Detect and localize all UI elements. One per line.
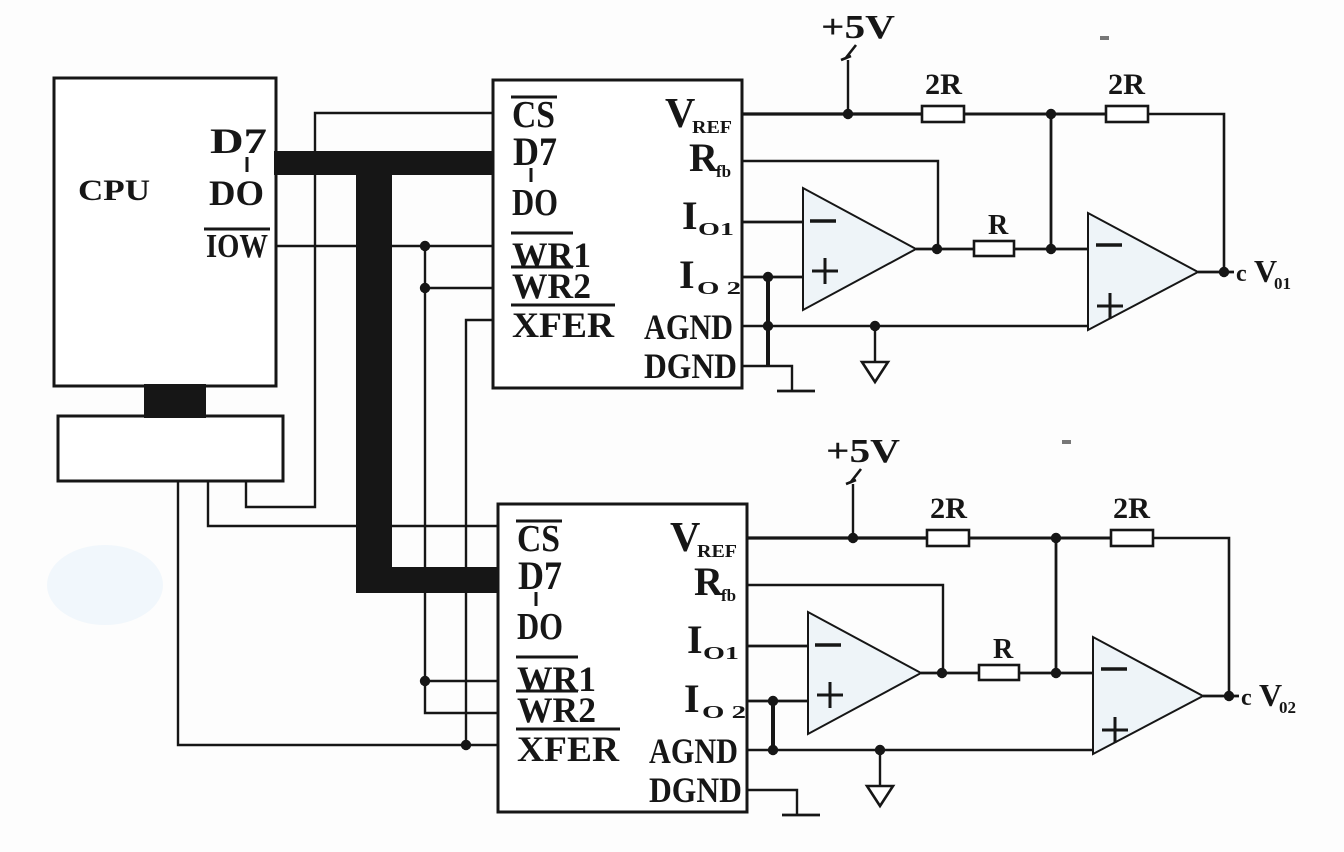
junction +5V on VREF (843, 109, 853, 119)
junction on AGND (763, 321, 773, 331)
U1 D7-D0 dash (530, 168, 533, 182)
wire AGND to op-amp A4 (747, 749, 1093, 752)
wire WR vertical trunk (425, 246, 497, 713)
wire A2 output (1198, 271, 1234, 274)
svg-text:DGND: DGND (644, 346, 737, 386)
svg-text:R: R (993, 634, 1014, 665)
wire A4 output (1203, 695, 1239, 698)
U1 CS overline (511, 96, 557, 99)
wire 2R to node (964, 113, 1106, 116)
junction A1 output (932, 244, 942, 254)
wire VREF to 2R (742, 112, 922, 115)
resistor 2R R2 (1106, 106, 1148, 122)
wire IO1 to A3 inverting input (747, 645, 808, 648)
A1 plus (812, 270, 838, 273)
svg-text:I: I (687, 617, 703, 662)
wire Rfb to op-amp A3 output (747, 585, 943, 673)
digital ground on DGND (742, 366, 792, 391)
DAC0832 U1 block (493, 80, 742, 388)
wire branch DAC1 WR2 (425, 287, 492, 289)
CPU block U0 (54, 78, 276, 386)
svg-text:DO: DO (512, 182, 558, 224)
junction IO2 (763, 272, 773, 282)
svg-text:REF: REF (692, 117, 732, 137)
svg-text:2R: 2R (1108, 68, 1145, 101)
svg-text:O 2: O 2 (697, 278, 741, 298)
U2 CS overline (516, 520, 562, 523)
data bus branch to DAC2 (thick) (390, 567, 499, 593)
analog ground symbol (874, 326, 876, 362)
digital ground on DGND (747, 790, 797, 815)
wire IO2 to A1 non-inverting input (742, 276, 803, 279)
+5V arrow mark (841, 45, 856, 60)
svg-text:AGND: AGND (649, 731, 738, 771)
+5V arrow mark (846, 469, 861, 484)
svg-text:c: c (1241, 685, 1252, 711)
U1 WR1 overline (511, 232, 573, 235)
wire IO1 to A1 inverting input (742, 221, 803, 224)
svg-text:R: R (689, 135, 719, 180)
svg-text:I: I (682, 193, 698, 238)
data bus D7-D0 CPU to DAC1 (thick) (274, 151, 494, 175)
junction R node (1051, 668, 1061, 678)
svg-text:DO: DO (209, 173, 264, 213)
wire XFER net: decoder to DAC2 XFER (178, 481, 497, 745)
wire CS2 net: decoder to DAC2 CS (208, 481, 497, 526)
wire XFER branch to DAC1 XFER (466, 320, 492, 745)
wire 2R feedback (1153, 538, 1229, 696)
A4 minus (1101, 667, 1127, 670)
svg-text:O1: O1 (698, 219, 734, 239)
wire IO2 to AGND (771, 701, 775, 750)
junction IO2 (768, 696, 778, 706)
op-amp A2 (1088, 213, 1198, 330)
junction WR at IOW (420, 241, 430, 251)
wire 2R to node (969, 537, 1111, 540)
resistor R (circuit 2) (979, 665, 1019, 680)
svg-text:CPU: CPU (78, 174, 150, 207)
scan speck 2 (1062, 440, 1071, 444)
svg-text:DGND: DGND (649, 770, 742, 810)
wire VREF node tap (1050, 114, 1053, 249)
latch block (58, 416, 283, 481)
svg-text:REF: REF (697, 541, 737, 561)
wire R to A2 inverting input (1014, 248, 1088, 251)
junction R node (1046, 244, 1056, 254)
junction WR1 DAC2 (420, 676, 430, 686)
junction +5V on VREF (848, 533, 858, 543)
svg-text:01: 01 (1274, 274, 1291, 293)
+5V supply wire (852, 484, 854, 538)
junction WR2 DAC1 (420, 283, 430, 293)
resistor 2R R1 (922, 106, 964, 122)
+5V supply wire (847, 60, 849, 114)
svg-text:2R: 2R (925, 68, 962, 101)
svg-text:O1: O1 (703, 643, 739, 663)
A2 plus (1097, 305, 1123, 308)
junction XFER net (461, 740, 471, 750)
svg-text:AGND: AGND (644, 307, 733, 347)
wire AGND to op-amp A2 (742, 325, 1088, 328)
svg-text:XFER: XFER (517, 729, 620, 769)
svg-text:V: V (670, 515, 700, 561)
svg-text:+5V: +5V (826, 433, 901, 470)
wire VREF node tap (1055, 538, 1058, 673)
junction VREF node (1046, 109, 1056, 119)
svg-text:WR2: WR2 (512, 266, 591, 306)
A3 minus (815, 643, 841, 646)
wire IO2 to AGND (766, 277, 770, 366)
CPU D7-D0 range dash (246, 157, 249, 172)
A3 plus (817, 694, 843, 697)
A4 plus (1102, 729, 1128, 732)
wire A3 output to R (921, 672, 979, 675)
wire 2R feedback (1148, 114, 1224, 272)
IOW overline (204, 228, 270, 231)
svg-text:R: R (988, 210, 1009, 241)
wire IO2 to A3 non-inverting input (747, 700, 808, 703)
U2 WR2 overline (516, 690, 578, 693)
svg-text:2R: 2R (1113, 492, 1150, 525)
wire VREF to 2R (747, 536, 927, 539)
background artifact blob (47, 545, 163, 625)
wire IOW: CPU to DAC1 WR1 (275, 245, 492, 247)
svg-text:c: c (1236, 261, 1247, 287)
A1 minus (810, 219, 836, 222)
svg-text:IOW: IOW (206, 228, 268, 265)
wire branch DAC2 WR1 (425, 680, 497, 682)
svg-text:V: V (665, 91, 695, 137)
resistor 2R R4 (1111, 530, 1153, 546)
DAC0832 U2 block (498, 504, 747, 812)
junction AGND at ground (875, 745, 885, 755)
analog ground symbol (879, 750, 881, 786)
junction AGND at ground (870, 321, 880, 331)
junction VREF node (1051, 533, 1061, 543)
resistor 2R R3 (927, 530, 969, 546)
svg-text:fb: fb (716, 162, 731, 181)
resistor R (circuit 1) (974, 241, 1014, 256)
svg-text:02: 02 (1279, 698, 1296, 717)
U1 XFER overline (511, 304, 615, 307)
svg-text:I: I (679, 252, 695, 297)
svg-text:D7: D7 (518, 553, 562, 598)
junction A3 output (937, 668, 947, 678)
svg-text:I: I (684, 676, 700, 721)
wire R to A4 inverting input (1019, 672, 1093, 675)
data bus vertical trunk (thick) (356, 173, 392, 593)
A2 minus (1096, 243, 1122, 246)
svg-text:O 2: O 2 (702, 702, 746, 722)
wire Rfb to op-amp A1 output (742, 161, 938, 249)
svg-text:DO: DO (517, 606, 563, 648)
svg-text:WR2: WR2 (517, 690, 596, 730)
junction output node (1224, 691, 1234, 701)
svg-text:D7: D7 (210, 121, 267, 161)
CPU-latch bus connector (thick) (144, 384, 206, 418)
junction output node (1219, 267, 1229, 277)
wire CS1 net: decoder to DAC1 CS (246, 113, 492, 507)
op-amp A3 (808, 612, 921, 734)
svg-text:+5V: +5V (821, 9, 896, 46)
svg-text:R: R (694, 559, 724, 604)
U1 WR2 overline (511, 266, 573, 269)
op-amp A4 (1093, 637, 1203, 754)
svg-text:fb: fb (721, 586, 736, 605)
U2 XFER overline (516, 728, 620, 731)
scan speck 1 (1100, 36, 1109, 40)
op-amp A1 (803, 188, 916, 310)
wire A1 output to R (916, 248, 974, 251)
U2 D7-D0 dash (535, 592, 538, 606)
U2 WR1 overline (516, 656, 578, 659)
svg-text:D7: D7 (513, 129, 557, 174)
svg-text:2R: 2R (930, 492, 967, 525)
junction on AGND (768, 745, 778, 755)
svg-text:XFER: XFER (512, 305, 615, 345)
